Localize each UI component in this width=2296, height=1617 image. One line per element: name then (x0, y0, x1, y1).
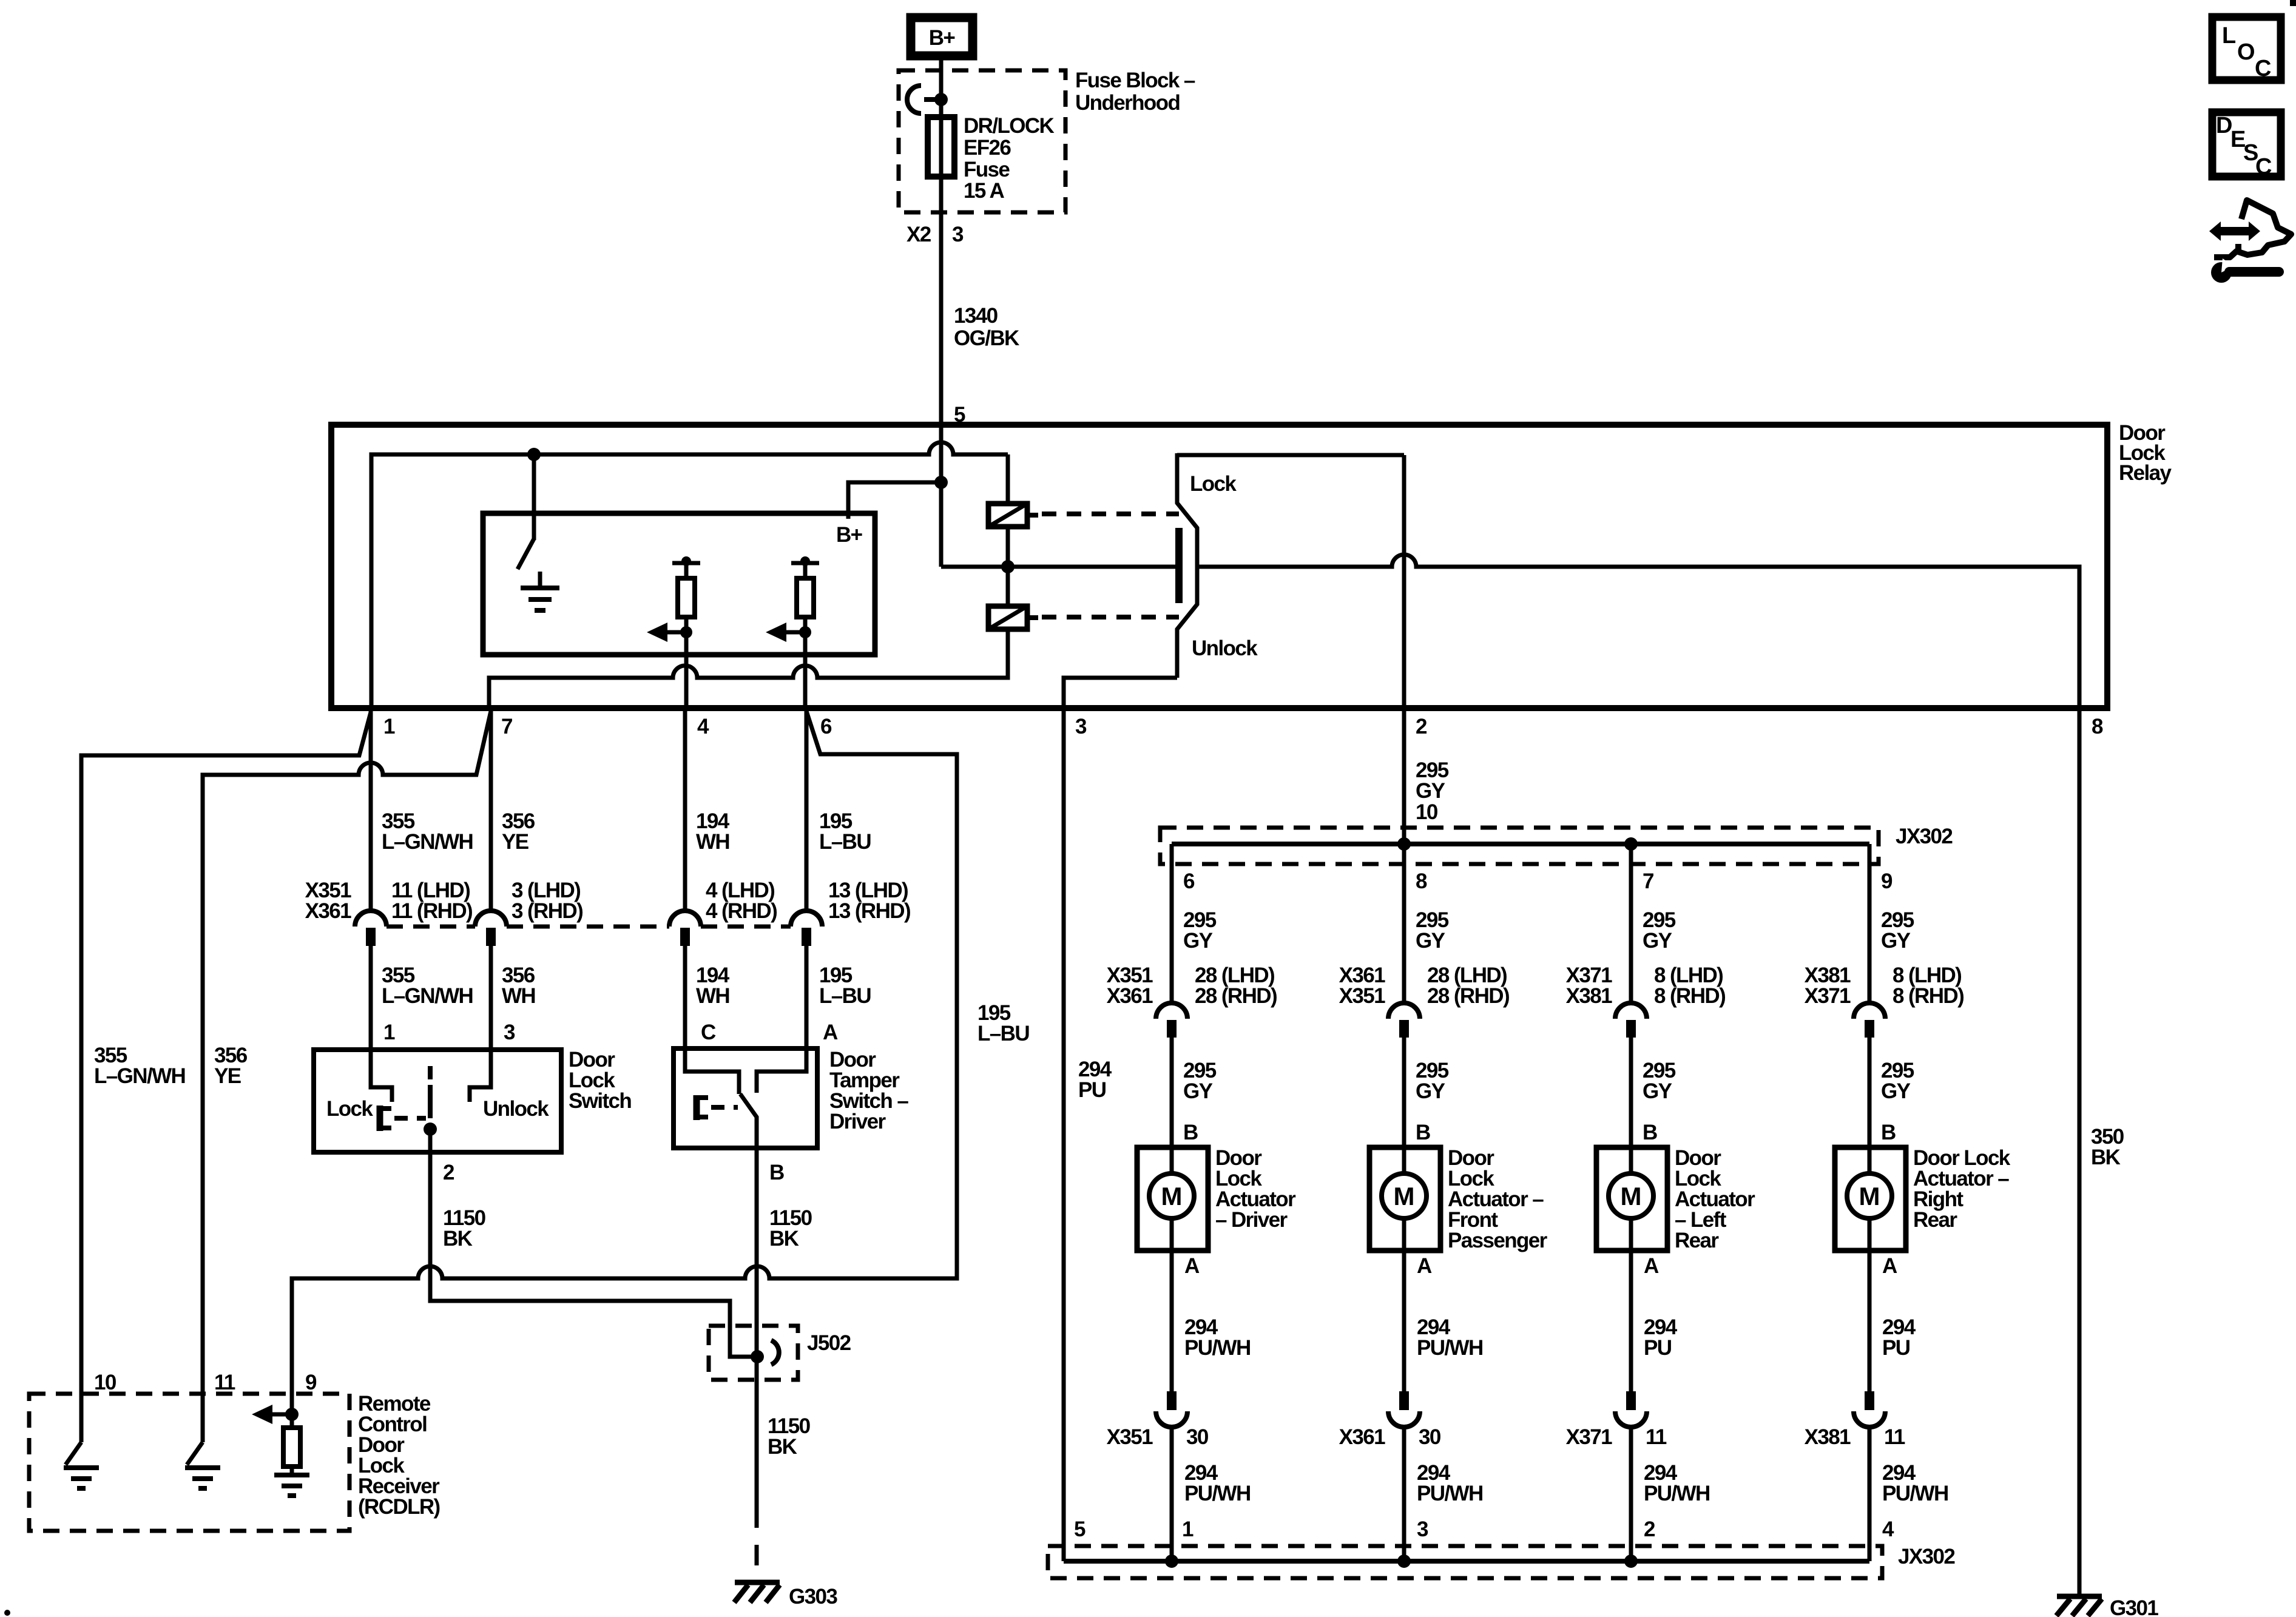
svg-text:YE: YE (214, 1064, 241, 1088)
svg-text:8: 8 (1416, 869, 1427, 893)
JX302 bottom bus wire (1064, 1559, 1869, 1564)
wire to tamper switch pin C (685, 946, 739, 1094)
fuse block label (1075, 69, 1195, 115)
RCDLR pin 10 switch to ground (64, 1442, 99, 1488)
junction dot bottom bus col 2 (1397, 1555, 1411, 1568)
svg-text:30: 30 (1419, 1425, 1441, 1449)
wire pin 4 to tamper switch (683, 708, 687, 911)
connector row X351 X361 labels (305, 879, 910, 923)
switch pin labels 1 3 C A (383, 1021, 838, 1044)
svg-text:3: 3 (504, 1021, 515, 1044)
svg-text:L–GN/WH: L–GN/WH (382, 830, 473, 854)
svg-text:6: 6 (1183, 869, 1195, 893)
svg-text:Fuse: Fuse (964, 158, 1010, 181)
svg-text:C: C (701, 1021, 716, 1044)
svg-text:15 A: 15 A (964, 179, 1005, 203)
lock contact output wire (1177, 455, 1404, 496)
junction JX302 bottom dashed box (1048, 1545, 1955, 1578)
tamper switch blade (740, 1094, 757, 1148)
svg-text:L–BU: L–BU (819, 830, 871, 854)
RCDLR box (29, 1392, 440, 1531)
inner box B+ (483, 513, 875, 655)
svg-text:Unlock: Unlock (1192, 636, 1258, 660)
door lock actuator driver (1137, 1147, 1208, 1251)
svg-text:Lock: Lock (1190, 472, 1237, 496)
service icon double arrow (2209, 221, 2260, 241)
common rail to pin 8 (1198, 555, 2079, 708)
svg-text:X361: X361 (1339, 1425, 1385, 1449)
svg-text:PU/WH: PU/WH (1417, 1482, 1483, 1505)
svg-text:GY: GY (1881, 1079, 1911, 1103)
wire to tamper switch pin A (757, 946, 806, 1093)
svg-text:L: L (2222, 23, 2236, 49)
svg-text:GY: GY (1416, 1079, 1445, 1103)
wire 294 from actuator driver (1170, 1218, 1174, 1391)
junction dot B+ tag (934, 476, 948, 489)
pin 2 and B labels (443, 1161, 812, 1251)
wire 295 GY column left rear (1629, 844, 1633, 1003)
page corner mark (2290, 0, 2296, 6)
svg-text:X351: X351 (1339, 984, 1385, 1008)
coil actuation dashed lines (1042, 511, 1179, 516)
svg-text:Passenger: Passenger (1448, 1229, 1548, 1252)
svg-text:C: C (2255, 56, 2271, 81)
wire 294 from actuator right rear (1868, 1218, 1872, 1391)
svg-text:11: 11 (214, 1371, 235, 1394)
wire B+ feed inside relay (939, 425, 944, 567)
svg-text:2: 2 (443, 1161, 454, 1184)
wire 355 pin1 branch to RCDLR 10 (81, 712, 371, 1442)
connector X371 pin 11 column left rear (1626, 1391, 1636, 1410)
svg-text:EF26: EF26 (964, 136, 1011, 160)
wire pin 1 to door lock switch (369, 708, 373, 911)
wire 295 GY to actuator front passenger (1402, 1038, 1406, 1174)
wire to door lock switch pin 3 (470, 946, 491, 1102)
connector X381 pin 11 column right rear (1865, 1391, 1874, 1410)
svg-text:2: 2 (1416, 715, 1427, 738)
wire B+ tag into inner box (848, 482, 941, 519)
door lock switch box (314, 1048, 631, 1152)
wire 294 PU/WH to JX302 column driver (1170, 1427, 1174, 1561)
DESC icon box (2212, 112, 2281, 180)
unlock drive rail pin7 to unlock coil (489, 629, 1008, 708)
connector X361 pin 30 column front passenger (1399, 1391, 1409, 1410)
connector clip at fuse input (907, 86, 937, 113)
svg-text:2: 2 (1644, 1517, 1655, 1541)
wire label 1150 BK lower (768, 1414, 811, 1459)
svg-text:1340: 1340 (954, 304, 998, 328)
unlock contact output wire (1064, 636, 1258, 708)
wire 294 PU/WH to JX302 column right rear (1868, 1427, 1872, 1561)
svg-text:WH: WH (696, 830, 729, 854)
door lock actuator right rear (1835, 1147, 1906, 1251)
svg-text:Driver: Driver (829, 1110, 886, 1133)
svg-text:A: A (1882, 1254, 1897, 1278)
door lock actuator front passenger (1369, 1147, 1440, 1251)
svg-text:10: 10 (1416, 800, 1438, 824)
svg-text:Rear: Rear (1675, 1229, 1719, 1252)
junction dot bottom bus col 1 (1165, 1555, 1178, 1568)
wire 195 pin6 branch to RCDLR 9 (292, 711, 957, 1414)
top rail pin1 to lock coil (371, 442, 1008, 708)
RCDLR pin labels (94, 1371, 317, 1394)
svg-text:B+: B+ (929, 26, 956, 50)
svg-text:13 (RHD): 13 (RHD) (828, 899, 910, 923)
svg-text:GY: GY (1416, 779, 1445, 803)
svg-text:X381: X381 (1805, 1425, 1851, 1449)
wire to door lock switch pin 1 (371, 946, 392, 1102)
svg-text:PU: PU (1644, 1336, 1672, 1360)
svg-text:28 (RHD): 28 (RHD) (1195, 984, 1277, 1008)
wire labels row 1 (382, 809, 871, 854)
svg-text:PU/WH: PU/WH (1644, 1482, 1710, 1505)
svg-text:3 (RHD): 3 (RHD) (512, 899, 582, 923)
wire 1150 BK from switch pin 2 to J502 (430, 1129, 752, 1357)
svg-text:B+: B+ (836, 523, 863, 547)
ground G303 (734, 1582, 837, 1609)
JX302 bottom pin labels (1182, 1517, 1894, 1541)
svg-text:8 (RHD): 8 (RHD) (1654, 984, 1725, 1008)
svg-text:X361: X361 (305, 899, 351, 923)
door lock switch common pole (424, 1066, 437, 1136)
svg-text:PU/WH: PU/WH (1417, 1336, 1483, 1360)
svg-text:1: 1 (383, 715, 395, 738)
resistor driver 1 (647, 556, 700, 708)
svg-text:7: 7 (1643, 869, 1653, 893)
connector X2 pin 3 labels (907, 223, 964, 246)
door lock switch detent symbol (380, 1106, 426, 1131)
junction dot top rail (527, 448, 541, 461)
svg-text:A: A (1644, 1254, 1659, 1278)
wire 1340 OG/BK fuse to relay (941, 177, 1019, 427)
wire pin 6 to tamper switch (805, 708, 809, 911)
relay contact fixed bar (1175, 528, 1183, 603)
svg-text:Unlock: Unlock (483, 1097, 549, 1121)
junction dot fuse input (934, 93, 948, 106)
tamper switch detent symbol (697, 1095, 738, 1120)
svg-text:4 (RHD): 4 (RHD) (706, 899, 777, 923)
wire labels 355 356 left column (94, 1044, 248, 1088)
svg-text:M: M (1161, 1182, 1183, 1210)
wire 1150 BK dashed segment (755, 1507, 759, 1579)
svg-text:L–BU: L–BU (977, 1022, 1029, 1045)
motor M driver (1149, 1173, 1194, 1218)
svg-text:9: 9 (305, 1371, 317, 1394)
svg-text:4: 4 (1882, 1517, 1894, 1541)
wire 295 GY to actuator right rear (1868, 1038, 1872, 1174)
motor M front passenger (1382, 1173, 1427, 1218)
svg-text:WH: WH (696, 984, 729, 1008)
svg-text:11 (RHD): 11 (RHD) (391, 899, 472, 923)
svg-text:OG/BK: OG/BK (954, 326, 1019, 350)
junction dot bottom bus col 3 (1624, 1555, 1638, 1568)
wire 294 PU/WH to JX302 column front passenger (1402, 1427, 1406, 1561)
svg-text:Relay: Relay (2119, 461, 2172, 485)
common B+ rail (941, 565, 1175, 569)
svg-text:PU: PU (1078, 1078, 1106, 1102)
junction dot bus col 3 (1624, 837, 1638, 851)
connector X351 pin 30 column driver (1167, 1391, 1177, 1410)
wire labels row 2 (382, 964, 871, 1008)
wire 1150 BK from tamper B to G303 (755, 1148, 759, 1507)
wire 295 GY column right rear (1868, 844, 1872, 1003)
wire 294 from actuator left rear (1629, 1218, 1633, 1391)
svg-text:Switch: Switch (569, 1089, 631, 1113)
door lock actuator left rear (1596, 1147, 1667, 1251)
svg-text:28 (RHD): 28 (RHD) (1427, 984, 1509, 1008)
svg-text:PU/WH: PU/WH (1882, 1482, 1948, 1505)
service icon wrench (2211, 258, 2279, 283)
svg-text:B: B (769, 1161, 784, 1184)
svg-text:6: 6 (820, 715, 832, 738)
svg-text:GY: GY (1183, 929, 1213, 953)
svg-text:– Driver: – Driver (1215, 1208, 1288, 1232)
svg-text:M: M (1394, 1182, 1415, 1210)
svg-text:BK: BK (2091, 1146, 2121, 1169)
wire 295 GY to actuator driver (1170, 1038, 1174, 1174)
svg-text:O: O (2237, 39, 2255, 65)
svg-text:L–BU: L–BU (819, 984, 871, 1008)
svg-text:JX302: JX302 (1898, 1545, 1955, 1568)
ground G301 (2056, 1596, 2158, 1617)
svg-text:X2: X2 (907, 223, 931, 246)
fuse block dashed box (899, 70, 1065, 212)
svg-text:(RCDLR): (RCDLR) (358, 1495, 440, 1519)
wire 294 PU relay pin 3 to JX302 pin 5 (1064, 708, 1112, 1561)
relay pin number labels (383, 715, 2103, 738)
svg-text:X371: X371 (1805, 984, 1851, 1008)
svg-text:A: A (823, 1021, 838, 1044)
svg-text:A: A (1184, 1254, 1200, 1278)
wire 350 BK relay pin 8 to G301 (2079, 708, 2124, 1596)
svg-text:B: B (1183, 1121, 1198, 1144)
pin 2 wire inside relay (1402, 455, 1406, 708)
motor M left rear (1609, 1173, 1653, 1218)
svg-text:M: M (1621, 1182, 1642, 1210)
wire 294 PU/WH to JX302 column left rear (1629, 1427, 1633, 1561)
svg-text:G301: G301 (2110, 1596, 2158, 1617)
junction dot bus col 2 (1397, 837, 1411, 851)
svg-text:X351: X351 (1107, 1425, 1153, 1449)
svg-text:Fuse Block –: Fuse Block – (1075, 69, 1195, 92)
svg-text:PU/WH: PU/WH (1184, 1336, 1251, 1360)
svg-text:X371: X371 (1566, 1425, 1612, 1449)
svg-text:X381: X381 (1566, 984, 1612, 1008)
svg-text:8 (RHD): 8 (RHD) (1893, 984, 1963, 1008)
svg-text:BK: BK (769, 1227, 799, 1251)
wire 295 GY column front passenger (1402, 844, 1406, 1003)
fuse DR/LOCK EF26 15A (928, 100, 1055, 203)
svg-text:B: B (1643, 1121, 1657, 1144)
lock relay coil (988, 454, 1038, 567)
svg-text:L–GN/WH: L–GN/WH (94, 1064, 185, 1088)
svg-text:1: 1 (1182, 1517, 1194, 1541)
door tamper switch box (674, 1048, 908, 1148)
svg-text:J502: J502 (807, 1331, 851, 1355)
svg-text:B: B (1416, 1121, 1430, 1144)
relay armature (1177, 453, 1197, 678)
svg-text:Lock: Lock (326, 1097, 373, 1121)
svg-text:C: C (2255, 154, 2272, 180)
svg-text:GY: GY (1416, 929, 1445, 953)
svg-text:JX302: JX302 (1896, 825, 1953, 848)
wire 295 GY relay pin 2 to JX302 (1404, 708, 1449, 844)
service icon panel outline (2214, 200, 2291, 257)
svg-text:11: 11 (1646, 1425, 1667, 1449)
svg-text:Underhood: Underhood (1075, 91, 1180, 115)
svg-text:BK: BK (768, 1435, 797, 1459)
svg-text:4: 4 (697, 715, 709, 738)
wire 295 GY column driver (1170, 844, 1174, 1003)
wire 356 pin7 branch to RCDLR 11 (203, 711, 491, 1442)
resistor driver 2 (766, 556, 819, 708)
unlock relay coil (988, 567, 1038, 629)
svg-text:1: 1 (383, 1021, 395, 1044)
svg-text:5: 5 (1074, 1517, 1086, 1541)
svg-text:DR/LOCK: DR/LOCK (964, 114, 1055, 138)
wire B+ to fuse block (939, 60, 944, 119)
svg-text:YE: YE (502, 830, 528, 854)
junction JX302 top dashed box (1160, 825, 1953, 864)
svg-text:M: M (1859, 1182, 1880, 1210)
wire pin 7 to door lock switch (489, 708, 493, 911)
RCDLR pin 9 resistor to ground (252, 1405, 309, 1496)
wire 195 L-BU label right (977, 1001, 1029, 1045)
svg-text:GY: GY (1643, 1079, 1672, 1103)
svg-text:B: B (1881, 1121, 1896, 1144)
wire 294 from actuator front passenger (1402, 1218, 1406, 1391)
svg-text:WH: WH (502, 984, 535, 1008)
svg-text:GY: GY (1881, 929, 1911, 953)
svg-text:9: 9 (1881, 869, 1893, 893)
svg-text:7: 7 (501, 715, 512, 738)
svg-text:Rear: Rear (1913, 1208, 1957, 1232)
page dot bottom left (4, 1610, 10, 1616)
svg-text:L–GN/WH: L–GN/WH (382, 984, 473, 1008)
battery feed B+ box (911, 18, 973, 56)
ground switch inside relay (518, 454, 559, 610)
svg-text:8: 8 (2092, 715, 2103, 738)
svg-text:30: 30 (1186, 1425, 1209, 1449)
svg-text:BK: BK (443, 1227, 473, 1251)
svg-text:11: 11 (1884, 1425, 1905, 1449)
svg-text:3: 3 (1075, 715, 1087, 738)
svg-text:3: 3 (1417, 1517, 1428, 1541)
RCDLR pin 11 switch to ground (185, 1442, 220, 1488)
motor M right rear (1847, 1173, 1892, 1218)
LOC icon box (2212, 17, 2281, 81)
svg-text:X361: X361 (1107, 984, 1153, 1008)
connector row symbols (355, 911, 822, 946)
svg-text:10: 10 (94, 1371, 116, 1394)
svg-text:GY: GY (1183, 1079, 1213, 1103)
junction dot coils (1001, 560, 1015, 573)
svg-text:3: 3 (952, 223, 964, 246)
JX302 top bus wire (1172, 842, 1869, 846)
junction J502 (709, 1326, 851, 1380)
svg-text:GY: GY (1643, 929, 1672, 953)
relay outer box Door Lock Relay (331, 425, 2107, 708)
svg-text:PU/WH: PU/WH (1184, 1482, 1251, 1505)
svg-text:G303: G303 (789, 1585, 837, 1609)
wire 295 GY to actuator left rear (1629, 1038, 1633, 1174)
svg-text:A: A (1417, 1254, 1432, 1278)
svg-text:PU: PU (1882, 1336, 1910, 1360)
